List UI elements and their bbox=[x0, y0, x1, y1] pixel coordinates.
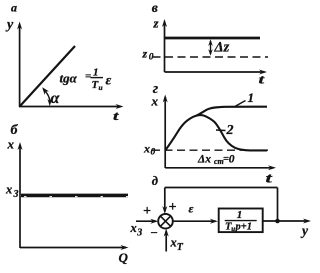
wire: feedback left drop into summer with arrow bbox=[162, 188, 167, 215]
plot a: y axis bbox=[17, 22, 22, 108]
x3 input label bbox=[130, 221, 143, 239]
plot v: delta z marker arrows bbox=[208, 39, 213, 56]
svg-text:2: 2 bbox=[226, 123, 234, 138]
plot b: Q axis bbox=[20, 245, 129, 250]
svg-text:0: 0 bbox=[229, 153, 235, 165]
svg-text:t: t bbox=[266, 171, 273, 187]
svg-text:y: y bbox=[5, 18, 14, 33]
svg-text:Δz: Δz bbox=[214, 40, 230, 56]
plot g: curve 2 label bbox=[216, 123, 234, 138]
plot v: t axis bbox=[165, 70, 268, 75]
svg-text:+: + bbox=[143, 204, 151, 219]
svg-text:p+1: p+1 bbox=[235, 221, 252, 232]
svg-text:1: 1 bbox=[93, 67, 99, 79]
plot g: curve 1 label bbox=[234, 90, 254, 107]
plot v: z0 dashed line bbox=[153, 56, 269, 58]
plot g: curve 1 (astatic response) bbox=[165, 107, 267, 151]
svg-text:0: 0 bbox=[149, 53, 154, 63]
svg-text:α: α bbox=[51, 90, 61, 107]
wire: disturbance input xT with arrow bbox=[164, 229, 169, 252]
svg-text:−: − bbox=[150, 225, 158, 240]
svg-text:T: T bbox=[177, 242, 184, 253]
plot v: vertical axis bbox=[162, 19, 167, 72]
svg-text:z: z bbox=[142, 47, 148, 61]
plot b: setpoint thick line x3 bbox=[21, 194, 128, 198]
wire: output y with arrow bbox=[263, 219, 311, 224]
node: output takeoff junction bbox=[275, 219, 280, 224]
plot g: delta x_st = 0 label bbox=[197, 153, 235, 166]
svg-text:=: = bbox=[85, 71, 91, 83]
wire: feedback right drop from output junction bbox=[277, 188, 279, 222]
svg-text:д: д bbox=[152, 174, 158, 188]
svg-text:0: 0 bbox=[151, 148, 156, 158]
plot g: t axis bbox=[165, 165, 276, 170]
plot a: t axis bbox=[19, 104, 124, 109]
transfer function block 1/(Tи p+1) bbox=[219, 209, 263, 233]
plot v: z step line bbox=[165, 37, 261, 40]
svg-text:3: 3 bbox=[136, 228, 142, 239]
svg-text:x: x bbox=[7, 137, 15, 152]
svg-text:и: и bbox=[99, 83, 103, 92]
svg-text:x: x bbox=[151, 94, 159, 109]
plot g: x0 label bbox=[143, 142, 156, 158]
plot g: vertical axis bbox=[163, 95, 168, 169]
plot b: x3 label bbox=[5, 183, 19, 201]
plot b: vertical axis bbox=[18, 142, 23, 248]
svg-text:а: а bbox=[11, 1, 17, 15]
plot a: angle arc with arrows bbox=[42, 87, 52, 106]
wire: setpoint input x3 with arrow bbox=[136, 219, 158, 224]
svg-text:x: x bbox=[5, 183, 12, 197]
plot a: formula tg alpha = 1/Tи ε bbox=[60, 67, 112, 93]
xT input label bbox=[170, 236, 184, 254]
summing junction bbox=[158, 214, 173, 229]
plot g: curve 2 (returning response) bbox=[196, 115, 267, 150]
svg-text:Q: Q bbox=[119, 250, 129, 265]
wire: error to block with arrow bbox=[173, 219, 218, 224]
svg-text:x: x bbox=[130, 221, 137, 235]
svg-text:3: 3 bbox=[13, 189, 19, 200]
summing junction X cross bbox=[161, 216, 171, 226]
plot v: z0 label bbox=[142, 47, 154, 63]
svg-text:1: 1 bbox=[248, 90, 255, 105]
wire: feedback top line bbox=[165, 187, 278, 189]
svg-text:ε: ε bbox=[106, 74, 112, 89]
svg-text:ε: ε bbox=[189, 202, 194, 216]
svg-text:+: + bbox=[169, 200, 177, 215]
svg-text:1: 1 bbox=[237, 209, 243, 221]
block fraction denominator Tи p+1 bbox=[225, 221, 252, 233]
plot a: ramp line bbox=[20, 46, 75, 107]
svg-text:x: x bbox=[143, 142, 150, 156]
svg-text:z: z bbox=[153, 16, 160, 31]
svg-text:x: x bbox=[170, 236, 177, 250]
svg-text:tgα: tgα bbox=[60, 71, 78, 86]
svg-text:в: в bbox=[152, 0, 158, 15]
block fraction bar bbox=[225, 220, 257, 222]
plot b: dash texture on setpoint line bbox=[24, 196, 128, 198]
svg-text:у: у bbox=[300, 223, 309, 238]
plot g: x0 dashed line bbox=[152, 149, 268, 151]
svg-text:Δx: Δx bbox=[197, 153, 211, 165]
